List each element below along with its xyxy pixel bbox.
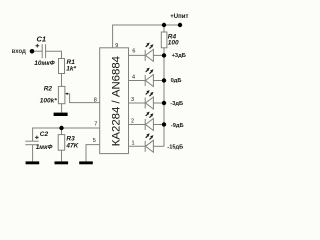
svg-text:9: 9 xyxy=(115,43,118,49)
svg-text:C2: C2 xyxy=(40,131,49,138)
svg-text:2: 2 xyxy=(131,118,134,124)
svg-text:1мкФ: 1мкФ xyxy=(36,144,54,151)
svg-text:+Uпит: +Uпит xyxy=(170,14,188,20)
svg-text:-15дБ: -15дБ xyxy=(167,144,183,150)
svg-text:+3дБ: +3дБ xyxy=(172,53,186,59)
svg-text:10мкФ: 10мкФ xyxy=(34,60,55,67)
svg-text:8: 8 xyxy=(94,97,97,103)
svg-text:100: 100 xyxy=(168,39,179,46)
svg-text:4: 4 xyxy=(132,74,135,80)
svg-text:6: 6 xyxy=(132,49,135,55)
svg-text:вход: вход xyxy=(12,49,26,55)
svg-text:-3дБ: -3дБ xyxy=(170,101,183,107)
svg-text:R3: R3 xyxy=(66,135,75,142)
svg-text:47K: 47K xyxy=(65,142,79,149)
svg-text:1k*: 1k* xyxy=(66,66,76,73)
svg-text:100k*: 100k* xyxy=(40,97,57,104)
svg-text:КА2284 / AN6884: КА2284 / AN6884 xyxy=(110,56,122,146)
svg-text:7: 7 xyxy=(94,122,97,128)
svg-text:C1: C1 xyxy=(37,35,47,44)
svg-text:3: 3 xyxy=(131,97,134,103)
svg-text:1: 1 xyxy=(132,140,135,146)
svg-text:-9дБ: -9дБ xyxy=(171,123,184,129)
svg-text:5: 5 xyxy=(93,138,96,144)
svg-text:R2: R2 xyxy=(44,86,53,93)
svg-text:0дБ: 0дБ xyxy=(171,78,182,84)
